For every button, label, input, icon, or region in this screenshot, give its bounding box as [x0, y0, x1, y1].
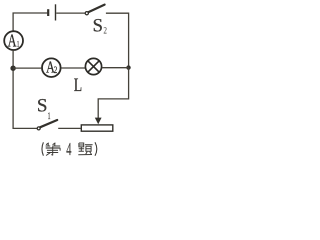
wire	[13, 13, 47, 31]
close paren	[95, 142, 97, 156]
svg-text:1: 1	[48, 112, 51, 122]
ammeter A2	[42, 58, 61, 77]
svg-text:2: 2	[103, 26, 107, 36]
wire	[106, 13, 129, 67]
rheostat slider arrow	[95, 118, 102, 125]
battery	[48, 4, 55, 20]
switch S2	[85, 5, 104, 15]
hanzi 题	[78, 143, 92, 155]
rheostat body	[81, 125, 113, 131]
wire	[102, 67, 129, 69]
ammeter A1	[4, 30, 23, 50]
node (A2 branch junction)	[10, 66, 15, 71]
caption (第4题)	[42, 139, 97, 159]
wire	[62, 67, 86, 69]
switch S1	[37, 120, 57, 130]
svg-text:S: S	[93, 17, 103, 37]
label S1	[37, 95, 51, 122]
hanzi 第	[46, 143, 61, 156]
svg-text:A: A	[8, 30, 17, 50]
svg-text:S: S	[37, 95, 48, 116]
svg-text:1: 1	[17, 39, 19, 48]
wire	[13, 67, 41, 69]
lamp L	[85, 58, 101, 74]
wire	[56, 12, 85, 14]
svg-text:4: 4	[66, 139, 71, 158]
wire	[98, 68, 128, 118]
wire	[58, 127, 81, 129]
label S2	[93, 17, 108, 37]
node (lamp/rheostat junction)	[126, 65, 130, 69]
wire	[13, 51, 37, 129]
open paren	[42, 142, 43, 155]
svg-text:L: L	[74, 75, 82, 96]
svg-text:2: 2	[54, 65, 58, 75]
